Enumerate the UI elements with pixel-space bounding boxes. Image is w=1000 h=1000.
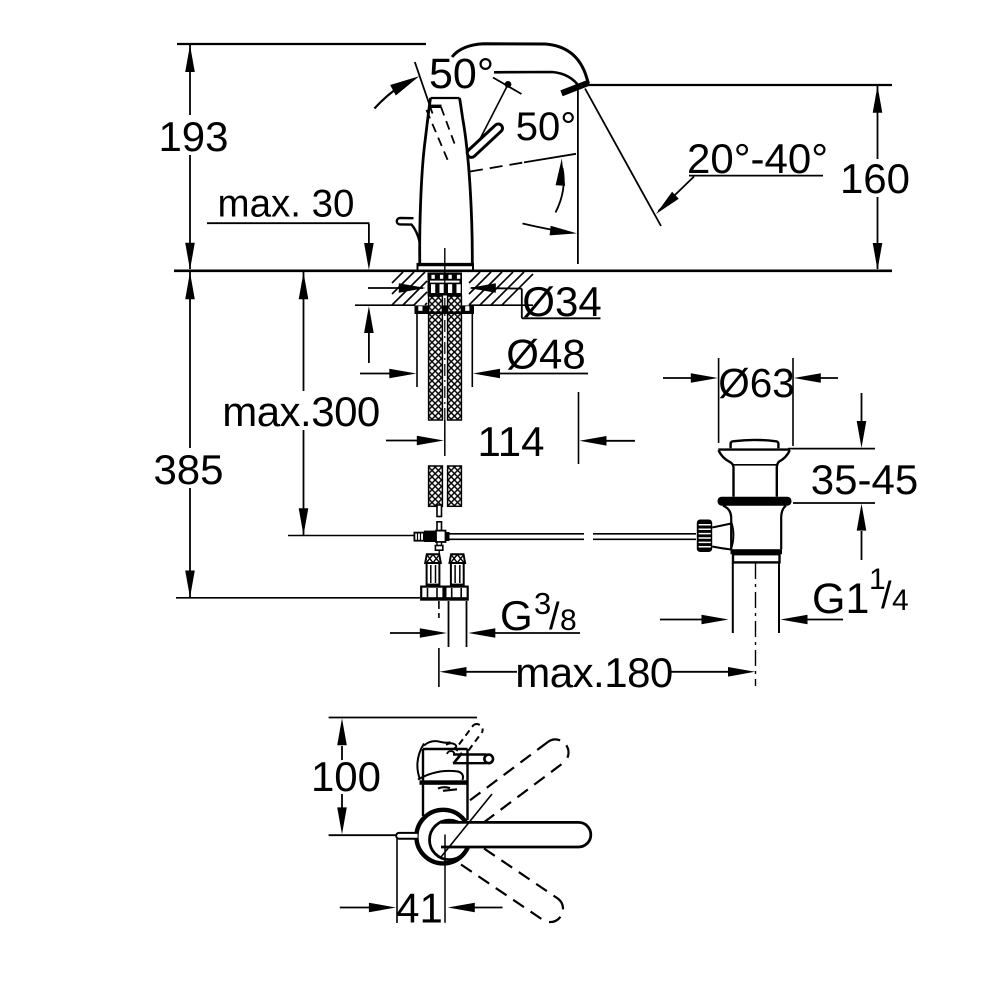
dimension Ø63 [663,358,838,446]
svg-text:max. 30: max. 30 [218,183,355,226]
neck swivel dashed line 2 [441,107,457,149]
plan view dashed handle swung up [470,739,569,822]
svg-text:8: 8 [560,604,577,637]
dimension 100 line [337,718,347,834]
plan view spout sketch curves [417,741,463,791]
svg-text:100: 100 [311,753,381,800]
dimension G1 1/4 arrows [660,615,843,625]
counter bottom edge left [355,304,415,306]
faucet spout outer curve [452,44,589,84]
G3/8 text [500,586,577,639]
pull rod tail line [438,550,440,553]
right tail tube [449,601,467,647]
rod connector left black block [424,531,436,542]
dimension max.30 [207,223,374,363]
svg-text:160: 160 [840,155,910,202]
plan view 100 bottom reference line [329,834,401,836]
rod connector center square [436,531,446,542]
drain rubber seal [718,497,792,506]
countertop hatching right [469,272,533,305]
pull rod below connector [437,542,442,548]
counter bottom edge right [469,304,533,306]
threaded shank [428,273,463,296]
rod connector left ridged block [414,533,424,541]
svg-text:max.300: max.300 [222,388,380,435]
drain centerline [755,563,757,686]
swivel 50 deg curved arrow [375,71,423,108]
lever swing arc lower [523,224,578,239]
drain outlet collar [733,554,780,562]
lever stick [466,122,505,159]
horizontal drain rod segment 2 [593,534,696,540]
pull rod end block [435,546,442,551]
dimension max.300 line [288,272,414,536]
plan view body thick band [420,780,468,785]
drain flange [718,450,790,497]
drain knurled knob [697,520,712,553]
spout outlet reference line (160 datum) [588,84,892,86]
countertop hatching left [392,272,427,305]
svg-text:G: G [500,592,533,639]
faucet spout inner curve [494,72,579,86]
spout tip vertical extension [577,87,579,264]
dimension 160 line [873,86,883,270]
svg-text:50°: 50° [516,105,577,149]
plan view faucet centerline [444,835,446,923]
svg-text:Ø63: Ø63 [718,360,795,406]
lever lowered dashed line [470,162,524,171]
drain stopper cap [731,440,779,448]
svg-text:50°: 50° [429,50,494,98]
braided hose right stub [448,466,462,506]
faucet centerline [444,248,446,273]
drain tailpipe [733,562,779,633]
rod connector right black block [446,532,450,541]
dimension 193 line [185,45,195,270]
svg-text:/: / [549,596,560,638]
faucet base plate [417,265,475,270]
dimension 35-45 [788,393,875,560]
dimension 385 line [176,272,420,598]
plan view handle rod solid [441,822,591,847]
svg-text:4: 4 [892,584,909,617]
svg-text:/: / [881,575,892,617]
svg-text:max.180: max.180 [515,649,673,696]
svg-text:Ø48: Ø48 [506,331,585,378]
svg-text:20°-40°: 20°-40° [687,135,828,182]
plan view dashed handle swung down [461,849,563,923]
dimension Ø48 [360,308,588,387]
plan view body rect [423,749,468,820]
svg-text:G1: G1 [812,575,869,623]
dimension Ø34 [368,283,601,318]
drain body bottom ring [731,549,783,554]
pull rod vertical upper [437,505,442,517]
faucet swivel tilt line [415,62,433,114]
mounting nut [415,305,475,314]
20-40 deg label underline [689,175,823,177]
neck dashed tick [430,105,442,108]
svg-text:385: 385 [153,446,223,493]
drain knob neck [712,524,731,550]
plan view lever pin [453,753,493,764]
svg-text:41: 41 [396,885,443,932]
dimension max.180 [439,648,755,687]
water stream diagonal [585,89,661,227]
hose end fitting left [421,554,445,600]
lever pivot cross [471,78,522,158]
plan view base outer circle [416,810,470,864]
counter top line [174,269,892,272]
top reference line (spout height datum) [177,43,426,45]
hose gap centerline [444,276,446,420]
svg-text:114: 114 [478,418,545,465]
braided hose left upper [429,296,443,420]
neck swivel dashed line 1 [427,110,449,162]
pull rod knob on body [397,218,420,243]
plan view pull rod stub [396,833,417,839]
left tail centerline [438,601,440,618]
plan view diagonal hairline [441,794,492,857]
horizontal drain rod segment 1 [450,534,585,540]
braided hose left stub [429,466,443,506]
dimension 114 [386,392,635,464]
dimension 41 left extension [396,839,398,923]
plan view lever pin raised dashed [459,724,483,750]
pull rod vertical lower [437,522,442,531]
drain body [723,506,786,550]
faucet spout mouth face [562,83,590,94]
dimension 41 arrows [340,903,503,913]
lever swing arc upper [556,158,567,212]
braided hose right upper [448,296,462,420]
G1 1/4 text [812,563,909,623]
hose end fitting right [445,554,469,600]
20-40 deg leader arrow [653,177,694,218]
svg-text:35-45: 35-45 [811,456,918,503]
svg-text:193: 193 [158,113,228,160]
svg-text:Ø34: Ø34 [522,278,601,325]
plan view 100 top reference line [329,717,477,719]
dimension G3/8 arrows [390,628,580,638]
faucet body outline [420,98,473,264]
plan view base inner circle [430,820,470,860]
